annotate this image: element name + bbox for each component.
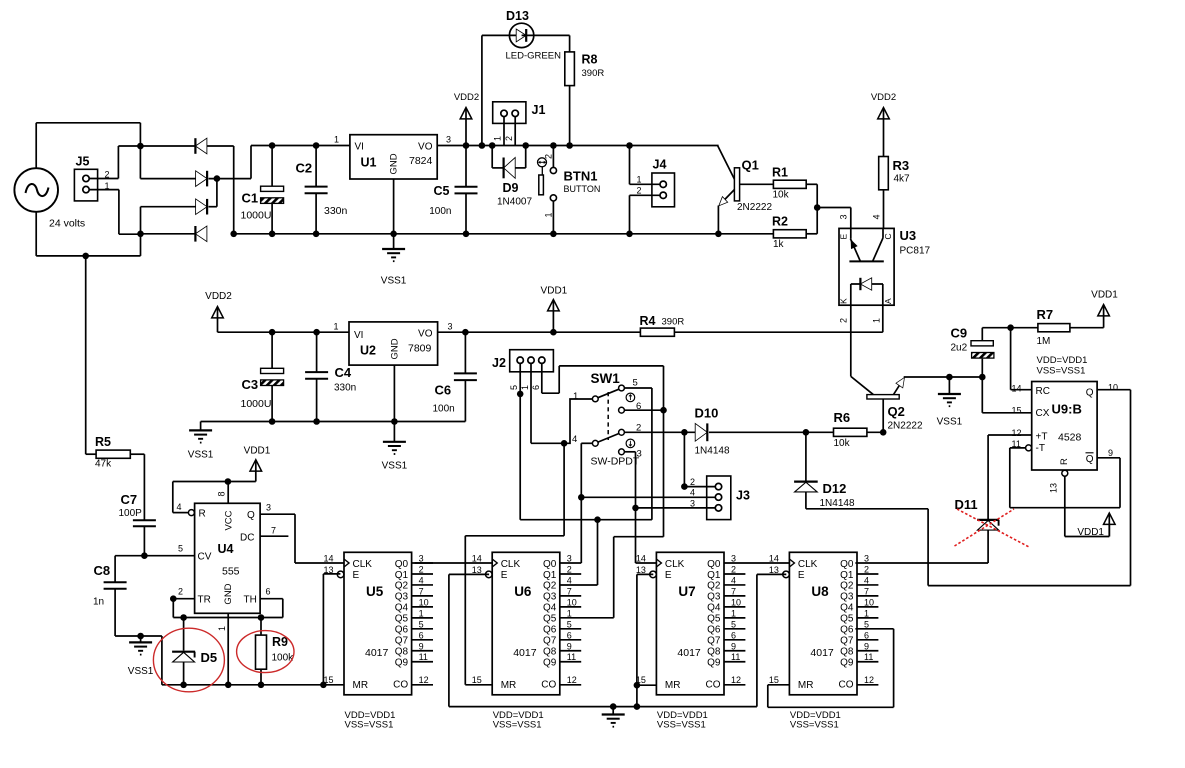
capacitor C6 bbox=[433, 332, 477, 421]
svg-text:Q7: Q7 bbox=[395, 636, 409, 647]
node BTN top bbox=[550, 142, 557, 149]
wire U6 E drop bbox=[449, 574, 489, 706]
svg-text:U3: U3 bbox=[900, 228, 917, 243]
wire D3 cathode link bbox=[209, 179, 217, 207]
svg-text:J2: J2 bbox=[492, 356, 506, 370]
wire U7 E-MR drop bbox=[637, 574, 653, 706]
svg-text:C9: C9 bbox=[951, 326, 968, 341]
svg-text:2: 2 bbox=[690, 477, 695, 487]
wire U8 E drop bbox=[757, 574, 786, 706]
svg-text:VDD1: VDD1 bbox=[541, 286, 568, 297]
wire bridge row1 bbox=[118, 145, 195, 147]
svg-text:VSS1: VSS1 bbox=[382, 461, 408, 472]
svg-text:U9:B: U9:B bbox=[1052, 402, 1082, 417]
diode D5 bbox=[172, 618, 217, 685]
svg-text:390R: 390R bbox=[582, 68, 605, 79]
wire J5 pin2 to row1 bbox=[89, 146, 118, 179]
wire R5 to C7 bbox=[130, 454, 144, 520]
wire U6.Q0 riser bbox=[560, 443, 593, 563]
node mid ground tap bbox=[610, 703, 617, 710]
svg-text:Q9: Q9 bbox=[707, 658, 721, 669]
svg-text:Q1: Q1 bbox=[742, 158, 759, 173]
svg-text:12: 12 bbox=[1012, 428, 1022, 438]
node U6.Q2 tap bbox=[594, 516, 601, 523]
svg-text:Q4: Q4 bbox=[840, 603, 854, 614]
svg-text:Q3: Q3 bbox=[543, 592, 557, 603]
transistor Q2 2N2222 bbox=[851, 376, 923, 432]
svg-text:Q5: Q5 bbox=[840, 614, 854, 625]
svg-text:Q0: Q0 bbox=[543, 559, 557, 570]
wire U3 pin2 drop bbox=[850, 305, 852, 376]
wire AC bottom bbox=[36, 212, 140, 256]
svg-text:E: E bbox=[798, 570, 805, 581]
svg-text:Q2: Q2 bbox=[543, 581, 557, 592]
wire R6 to Q2 base bbox=[867, 431, 883, 433]
wire J3 pin4 bbox=[581, 496, 715, 498]
svg-text:1N4148: 1N4148 bbox=[695, 446, 730, 457]
svg-text:Q9: Q9 bbox=[543, 658, 557, 669]
svg-text:Q: Q bbox=[247, 510, 255, 521]
timer U4 555 bbox=[176, 491, 276, 631]
node emitter ground tap bbox=[946, 374, 953, 381]
wire U2 ground rail bbox=[201, 421, 466, 423]
resistor R9 100k bbox=[256, 618, 295, 685]
svg-text:VO: VO bbox=[418, 329, 433, 340]
svg-text:12: 12 bbox=[419, 675, 429, 685]
svg-text:Q2: Q2 bbox=[395, 581, 409, 592]
svg-text:7: 7 bbox=[731, 586, 736, 596]
svg-text:5: 5 bbox=[731, 619, 736, 629]
wire TH bbox=[260, 598, 283, 600]
svg-text:3: 3 bbox=[567, 554, 572, 564]
wire U8 MR-Q6 loop bbox=[768, 629, 894, 708]
svg-text:3: 3 bbox=[446, 135, 451, 145]
wire DC stub bbox=[260, 535, 288, 537]
wire C8 ground link bbox=[115, 636, 162, 685]
diode D10 1N4148 bbox=[695, 406, 730, 457]
svg-text:9: 9 bbox=[1108, 448, 1113, 458]
node RC junction bbox=[1007, 324, 1014, 331]
wire reset net drop bbox=[465, 443, 564, 685]
svg-text:Q: Q bbox=[1086, 388, 1094, 399]
node C8 gnd tap bbox=[137, 633, 144, 640]
node C5 bottom bbox=[463, 231, 470, 238]
svg-text:J5: J5 bbox=[76, 155, 90, 169]
diode D2 bbox=[196, 171, 208, 187]
svg-text:9: 9 bbox=[864, 641, 869, 651]
svg-text:1: 1 bbox=[333, 322, 338, 332]
svg-text:1M: 1M bbox=[1037, 336, 1051, 347]
svg-text:CO: CO bbox=[541, 680, 556, 691]
node C7 to CV bbox=[141, 552, 148, 559]
wire CV line bbox=[115, 556, 195, 582]
ground VSS1 below U2 bbox=[382, 422, 408, 472]
svg-text:4017: 4017 bbox=[513, 647, 537, 659]
svg-text:-T: -T bbox=[1036, 443, 1045, 454]
wire +T to D11 bbox=[987, 435, 989, 519]
node D5 top bbox=[180, 614, 187, 621]
capacitor C3 bbox=[241, 332, 284, 421]
capacitor C5 bbox=[429, 146, 477, 234]
svg-text:7824: 7824 bbox=[409, 155, 433, 167]
svg-text:E: E bbox=[839, 234, 849, 240]
svg-text:6: 6 bbox=[731, 630, 736, 640]
svg-text:10: 10 bbox=[567, 597, 577, 607]
svg-text:2: 2 bbox=[504, 136, 514, 141]
svg-text:2: 2 bbox=[864, 564, 869, 574]
svg-text:Q5: Q5 bbox=[707, 614, 721, 625]
wire bridge row3 left bbox=[141, 207, 196, 234]
svg-text:2N2222: 2N2222 bbox=[888, 421, 923, 432]
svg-text:R: R bbox=[199, 509, 206, 520]
regulator U1 7824 bbox=[334, 135, 451, 180]
svg-text:C1: C1 bbox=[242, 191, 259, 206]
wire bridge row2 left bbox=[140, 178, 195, 180]
svg-text:100n: 100n bbox=[429, 206, 451, 217]
svg-text:9: 9 bbox=[567, 641, 572, 651]
svg-text:E: E bbox=[353, 570, 360, 581]
svg-text:10: 10 bbox=[419, 597, 429, 607]
node U2 GND bbox=[391, 418, 398, 425]
svg-text:VSS1: VSS1 bbox=[937, 417, 963, 428]
node C3 top bbox=[269, 329, 276, 336]
connector J1 bbox=[493, 102, 546, 141]
svg-text:7: 7 bbox=[271, 526, 276, 536]
node U5 E tap bbox=[320, 682, 327, 689]
wire VO2 rail right bbox=[674, 331, 882, 333]
wire J4 pin2 drop bbox=[630, 195, 661, 234]
svg-text:10k: 10k bbox=[834, 438, 851, 449]
wire R pin13 to VDD1 bbox=[1065, 476, 1110, 536]
svg-text:VCC: VCC bbox=[224, 510, 235, 530]
svg-text:330n: 330n bbox=[324, 205, 348, 217]
svg-text:CLK: CLK bbox=[353, 559, 373, 570]
svg-text:11: 11 bbox=[567, 652, 576, 662]
svg-text:4528: 4528 bbox=[1058, 432, 1082, 444]
node R1-R2 junction bbox=[814, 204, 821, 211]
svg-text:Q3: Q3 bbox=[395, 592, 409, 603]
svg-text:BTN1: BTN1 bbox=[564, 169, 598, 184]
wire U2 GND pin bbox=[393, 365, 395, 421]
svg-text:U6: U6 bbox=[514, 584, 532, 599]
svg-text:CLK: CLK bbox=[501, 559, 521, 570]
node R9 top bbox=[258, 614, 265, 621]
wire VO2 rail left bbox=[438, 331, 641, 333]
svg-text:MR: MR bbox=[665, 680, 681, 691]
svg-text:MR: MR bbox=[353, 680, 369, 691]
svg-text:VDD2: VDD2 bbox=[871, 92, 896, 103]
node C9 bottom bbox=[979, 374, 986, 381]
wire RC line bbox=[1011, 328, 1032, 390]
svg-text:2N2222: 2N2222 bbox=[737, 202, 772, 213]
ground VSS1 below Q2 bbox=[937, 377, 963, 428]
node U7 E rail bbox=[634, 703, 641, 710]
svg-text:5: 5 bbox=[567, 619, 572, 629]
svg-text:1N4007: 1N4007 bbox=[497, 197, 532, 208]
red circle around D5 bbox=[153, 628, 224, 692]
svg-text:VSS1: VSS1 bbox=[128, 666, 154, 677]
svg-text:12: 12 bbox=[731, 675, 741, 685]
svg-text:Q0: Q0 bbox=[707, 559, 721, 570]
node U1 GND bbox=[390, 231, 397, 238]
svg-text:Q8: Q8 bbox=[707, 647, 721, 658]
svg-text:1: 1 bbox=[637, 175, 642, 185]
svg-text:TR: TR bbox=[198, 595, 211, 606]
svg-text:VI: VI bbox=[355, 142, 364, 153]
node C4 bottom bbox=[313, 418, 320, 425]
capacitor C1 bbox=[241, 146, 284, 234]
svg-text:14: 14 bbox=[1012, 384, 1022, 394]
wire J1 pin1 bbox=[503, 117, 505, 146]
wire D10 to R6 bbox=[709, 431, 834, 433]
svg-text:1n: 1n bbox=[93, 597, 104, 608]
red cross over D11 bbox=[955, 509, 1030, 547]
resistor R6 10k bbox=[834, 410, 867, 449]
svg-text:4: 4 bbox=[176, 502, 181, 512]
svg-text:2: 2 bbox=[637, 186, 642, 196]
ground VSS1 below C8 bbox=[128, 636, 154, 677]
svg-text:24 volts: 24 volts bbox=[49, 218, 85, 230]
svg-text:U5: U5 bbox=[366, 584, 384, 599]
svg-text:Q7: Q7 bbox=[543, 636, 557, 647]
svg-text:1: 1 bbox=[864, 608, 869, 618]
svg-text:1N4148: 1N4148 bbox=[820, 498, 855, 509]
svg-text:VDD=VDD1: VDD=VDD1 bbox=[1037, 355, 1088, 366]
svg-text:D9: D9 bbox=[503, 181, 519, 195]
node C1 top bbox=[269, 142, 276, 149]
wire J4 pin1 riser bbox=[630, 146, 661, 185]
wire DC- bottom rail bbox=[234, 233, 774, 235]
svg-text:1: 1 bbox=[871, 318, 881, 323]
wire D1 anode to DC- riser bbox=[207, 146, 234, 234]
svg-text:VSS=VSS1: VSS=VSS1 bbox=[790, 720, 839, 731]
svg-text:2: 2 bbox=[544, 154, 554, 159]
svg-text:9: 9 bbox=[731, 641, 736, 651]
wire J2 pin6 route bbox=[542, 363, 664, 536]
monostable U9:B 4528 bbox=[1012, 382, 1119, 494]
svg-text:CX: CX bbox=[1036, 408, 1050, 419]
node J4 pin1 tap bbox=[626, 142, 633, 149]
svg-text:VI: VI bbox=[354, 330, 363, 341]
wire C9 top to R7 bbox=[982, 327, 1038, 329]
node C1 bottom bbox=[269, 231, 276, 238]
capacitor C8 1n bbox=[93, 563, 127, 636]
svg-text:U7: U7 bbox=[678, 584, 695, 599]
svg-text:Q4: Q4 bbox=[543, 603, 557, 614]
node C3 bottom bbox=[269, 418, 276, 425]
svg-text:Q4: Q4 bbox=[707, 603, 721, 614]
wire row1-row2 link bbox=[139, 146, 141, 179]
svg-text:6: 6 bbox=[419, 630, 424, 640]
svg-text:14: 14 bbox=[636, 554, 646, 564]
node row4 junction bbox=[137, 231, 144, 238]
svg-text:Q2: Q2 bbox=[707, 581, 721, 592]
wire J2 pin1 drop bbox=[531, 363, 564, 443]
node J3.2 tap bbox=[681, 429, 688, 436]
svg-text:2: 2 bbox=[567, 564, 572, 574]
svg-text:D13: D13 bbox=[506, 9, 529, 23]
svg-text:1: 1 bbox=[520, 385, 530, 390]
power VDD1 top right bbox=[1091, 290, 1118, 328]
svg-text:U1: U1 bbox=[361, 156, 377, 170]
svg-text:6: 6 bbox=[864, 630, 869, 640]
wire U4 GND pin bbox=[227, 613, 229, 685]
svg-text:Q7: Q7 bbox=[840, 636, 854, 647]
diode D12 1N4148 bbox=[794, 432, 855, 509]
svg-text:BUTTON: BUTTON bbox=[564, 184, 601, 194]
svg-text:Q0: Q0 bbox=[840, 559, 854, 570]
svg-text:Q6: Q6 bbox=[840, 625, 854, 636]
svg-text:12: 12 bbox=[567, 675, 577, 685]
svg-text:3: 3 bbox=[839, 214, 849, 219]
resistor R2 1k bbox=[772, 215, 806, 251]
svg-text:RC: RC bbox=[1036, 386, 1050, 397]
svg-text:U4: U4 bbox=[218, 542, 234, 556]
svg-text:Q2: Q2 bbox=[888, 404, 905, 419]
svg-text:100P: 100P bbox=[119, 508, 143, 519]
svg-text:VDD1: VDD1 bbox=[1077, 527, 1104, 538]
counter U5 4017 bbox=[324, 552, 434, 730]
wire R5 feed bbox=[86, 256, 96, 454]
wire R1 to node bbox=[806, 184, 817, 207]
svg-text:Q4: Q4 bbox=[395, 603, 409, 614]
svg-text:Q1: Q1 bbox=[707, 570, 721, 581]
svg-text:R4: R4 bbox=[640, 314, 656, 328]
capacitor C7 100P bbox=[119, 492, 156, 556]
svg-text:10: 10 bbox=[1108, 383, 1118, 393]
svg-text:U2: U2 bbox=[360, 344, 376, 358]
svg-text:CO: CO bbox=[706, 680, 721, 691]
svg-text:9: 9 bbox=[419, 641, 424, 651]
svg-text:2: 2 bbox=[419, 564, 424, 574]
capacitor C4 bbox=[305, 332, 356, 421]
wire R3 to U3 pin4 bbox=[883, 190, 885, 229]
wire DC+ riser bbox=[250, 146, 252, 179]
node D9 left bbox=[489, 142, 496, 149]
connector J3 bbox=[690, 476, 750, 520]
svg-text:1: 1 bbox=[731, 608, 736, 618]
transistor Q1 2N2222 bbox=[718, 146, 774, 234]
node D5 bottom bbox=[180, 682, 187, 689]
wire throw2 to D10 bbox=[624, 431, 695, 433]
connector J5 bbox=[74, 155, 109, 201]
node U4 gnd rail bbox=[225, 682, 232, 689]
svg-text:CO: CO bbox=[839, 680, 854, 691]
svg-text:5: 5 bbox=[509, 385, 519, 390]
svg-text:4: 4 bbox=[864, 575, 869, 585]
wire LED to R8 bbox=[522, 35, 570, 52]
diode D4 bbox=[195, 226, 207, 242]
svg-text:C5: C5 bbox=[434, 184, 450, 198]
svg-text:Q1: Q1 bbox=[840, 570, 854, 581]
wire TR-TH link bbox=[173, 599, 282, 618]
wire U2 input rail bbox=[218, 331, 350, 333]
svg-text:D10: D10 bbox=[695, 406, 719, 421]
diode D3 bbox=[196, 199, 208, 215]
svg-text:3: 3 bbox=[266, 503, 271, 513]
node J3 pin2 bbox=[681, 483, 688, 490]
svg-text:4: 4 bbox=[419, 575, 424, 585]
svg-text:R3: R3 bbox=[893, 158, 910, 173]
svg-text:13: 13 bbox=[769, 565, 779, 575]
svg-text:4k7: 4k7 bbox=[894, 174, 911, 185]
LED D13 bbox=[506, 9, 562, 62]
wire U6.Q2 riser bbox=[560, 520, 598, 585]
connector J4 bbox=[637, 158, 675, 207]
svg-text:7: 7 bbox=[419, 586, 424, 596]
svg-text:4017: 4017 bbox=[677, 647, 701, 659]
svg-text:Q8: Q8 bbox=[395, 647, 409, 658]
svg-text:1: 1 bbox=[544, 212, 554, 217]
svg-text:Q: Q bbox=[1086, 454, 1094, 465]
red circle around R9 bbox=[237, 631, 294, 673]
svg-text:6: 6 bbox=[531, 385, 541, 390]
node reset junction bbox=[561, 440, 568, 447]
wire Q2 emitter line bbox=[904, 376, 983, 378]
wire J3 pin3 bbox=[636, 507, 716, 509]
svg-text:Q6: Q6 bbox=[395, 625, 409, 636]
svg-text:VSS=VSS1: VSS=VSS1 bbox=[657, 720, 706, 731]
svg-text:Q8: Q8 bbox=[840, 647, 854, 658]
wire throw3 to J3.3 bbox=[624, 452, 656, 563]
svg-text:10: 10 bbox=[864, 597, 874, 607]
wire J1 pin2 bbox=[514, 117, 516, 146]
svg-text:R7: R7 bbox=[1037, 307, 1054, 322]
svg-text:2: 2 bbox=[178, 587, 183, 597]
svg-text:1: 1 bbox=[567, 608, 572, 618]
svg-text:4: 4 bbox=[572, 434, 577, 445]
node Q1 emitter bbox=[715, 231, 722, 238]
wire U5.Q0 to U6.CLK bbox=[415, 562, 493, 564]
wire throw6 stub bbox=[624, 409, 663, 411]
text VDD=VDD1 above U9 bbox=[1037, 355, 1088, 377]
wire CX line bbox=[982, 377, 1031, 413]
wire R7 to VDD1 bbox=[1070, 327, 1104, 329]
svg-text:+T: +T bbox=[1036, 432, 1048, 443]
resistor R1 10k bbox=[772, 166, 806, 201]
svg-text:3: 3 bbox=[448, 322, 453, 332]
node U7 MR tie bbox=[634, 682, 641, 689]
svg-text:Q0: Q0 bbox=[395, 559, 409, 570]
resistor R8 390R bbox=[565, 52, 605, 146]
svg-text:Q7: Q7 bbox=[707, 636, 721, 647]
svg-text:R2: R2 bbox=[772, 215, 788, 229]
svg-text:4: 4 bbox=[690, 488, 695, 498]
svg-text:47k: 47k bbox=[95, 459, 112, 470]
svg-text:330n: 330n bbox=[334, 383, 356, 394]
svg-text:8: 8 bbox=[217, 491, 227, 496]
svg-text:2u2: 2u2 bbox=[951, 343, 968, 354]
diode D1 bbox=[195, 138, 207, 154]
node TR corner bbox=[170, 595, 177, 602]
node R8 bottom bbox=[566, 142, 573, 149]
node C2 top bbox=[313, 142, 320, 149]
diode D9 1N4007 bbox=[492, 146, 532, 208]
svg-text:14: 14 bbox=[769, 554, 779, 564]
wire LED riser bbox=[482, 35, 522, 145]
svg-text:2: 2 bbox=[636, 423, 641, 434]
wire -T loop bbox=[1010, 448, 1120, 508]
svg-text:GND: GND bbox=[223, 583, 234, 604]
svg-text:D12: D12 bbox=[823, 481, 847, 496]
counter U7 4017 bbox=[636, 552, 746, 730]
svg-text:7809: 7809 bbox=[408, 343, 432, 355]
svg-text:4017: 4017 bbox=[365, 647, 389, 659]
svg-text:D5: D5 bbox=[201, 650, 218, 665]
wire throw5 to J2.5 bbox=[624, 388, 652, 520]
svg-text:3: 3 bbox=[731, 554, 736, 564]
svg-text:4: 4 bbox=[871, 214, 881, 219]
